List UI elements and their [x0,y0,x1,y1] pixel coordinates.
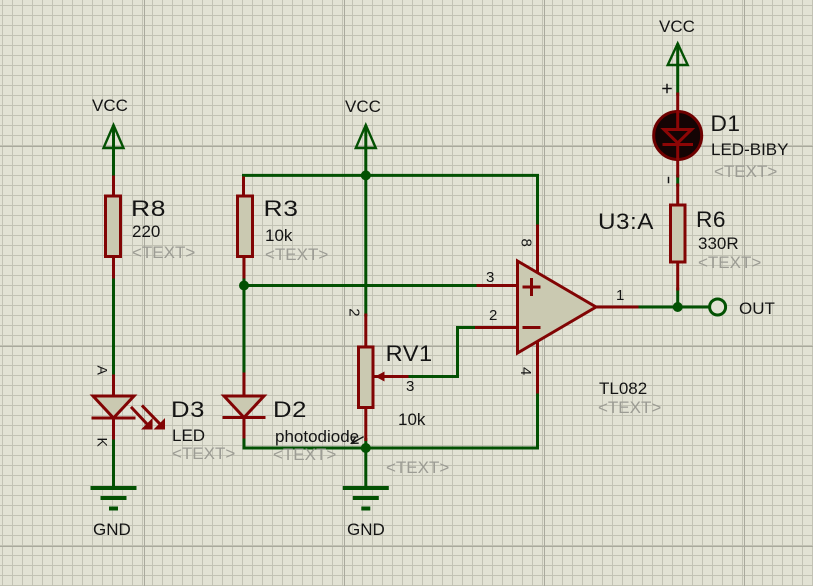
svg-text:GND: GND [93,520,131,539]
svg-text:10k: 10k [398,410,426,429]
svg-text:A: A [95,366,111,376]
svg-text:<TEXT>: <TEXT> [172,444,235,463]
svg-text:GND: GND [347,520,385,539]
svg-text:D3: D3 [171,397,205,422]
svg-text:220: 220 [132,222,160,241]
svg-text:2: 2 [489,307,497,324]
svg-text:VCC: VCC [659,17,695,36]
svg-text:R6: R6 [696,207,726,232]
svg-text:D2: D2 [273,397,307,422]
svg-text:<TEXT>: <TEXT> [386,458,449,477]
svg-text:K: K [95,438,111,448]
svg-text:U3:A: U3:A [598,209,654,234]
svg-text:4: 4 [517,367,534,375]
svg-text:RV1: RV1 [386,341,433,366]
svg-text:<TEXT>: <TEXT> [265,245,328,264]
svg-text:<TEXT>: <TEXT> [273,445,336,464]
svg-text:<TEXT>: <TEXT> [698,253,761,272]
svg-text:photodiode: photodiode [275,427,359,446]
svg-text:<TEXT>: <TEXT> [132,243,195,262]
svg-text:3: 3 [486,269,494,286]
svg-text:3: 3 [406,378,414,395]
svg-text:VCC: VCC [92,96,128,115]
svg-text:10k: 10k [265,226,293,245]
svg-text:LED-BIBY: LED-BIBY [711,140,788,159]
svg-text:LED: LED [172,426,205,445]
svg-text:R3: R3 [264,196,299,221]
svg-text:VCC: VCC [345,97,381,116]
svg-text:<TEXT>: <TEXT> [714,162,777,181]
svg-text:8: 8 [517,239,534,247]
svg-text:D1: D1 [711,111,741,136]
svg-text:TL082: TL082 [599,379,647,398]
svg-text:<TEXT>: <TEXT> [598,398,661,417]
svg-text:OUT: OUT [739,299,775,318]
svg-text:1: 1 [616,287,624,304]
svg-text:330R: 330R [698,234,739,253]
svg-text:R8: R8 [131,196,166,221]
svg-text:2: 2 [346,308,363,316]
